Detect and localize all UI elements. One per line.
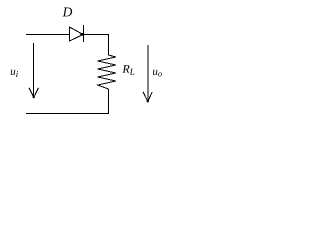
label uo bbox=[153, 70, 162, 77]
diode D bbox=[70, 25, 84, 42]
wire bottom bbox=[26, 113, 109, 115]
arrow uo bbox=[143, 45, 152, 102]
label D bbox=[62, 8, 72, 17]
wire right vertical upper bbox=[108, 34, 110, 56]
arrow ui bbox=[29, 43, 39, 98]
label ui bbox=[11, 70, 18, 77]
label RL bbox=[122, 65, 134, 75]
wire top right segment bbox=[84, 34, 109, 36]
resistor RL bbox=[98, 55, 116, 89]
wire right vertical lower bbox=[108, 89, 110, 114]
wire top left segment bbox=[26, 34, 70, 36]
